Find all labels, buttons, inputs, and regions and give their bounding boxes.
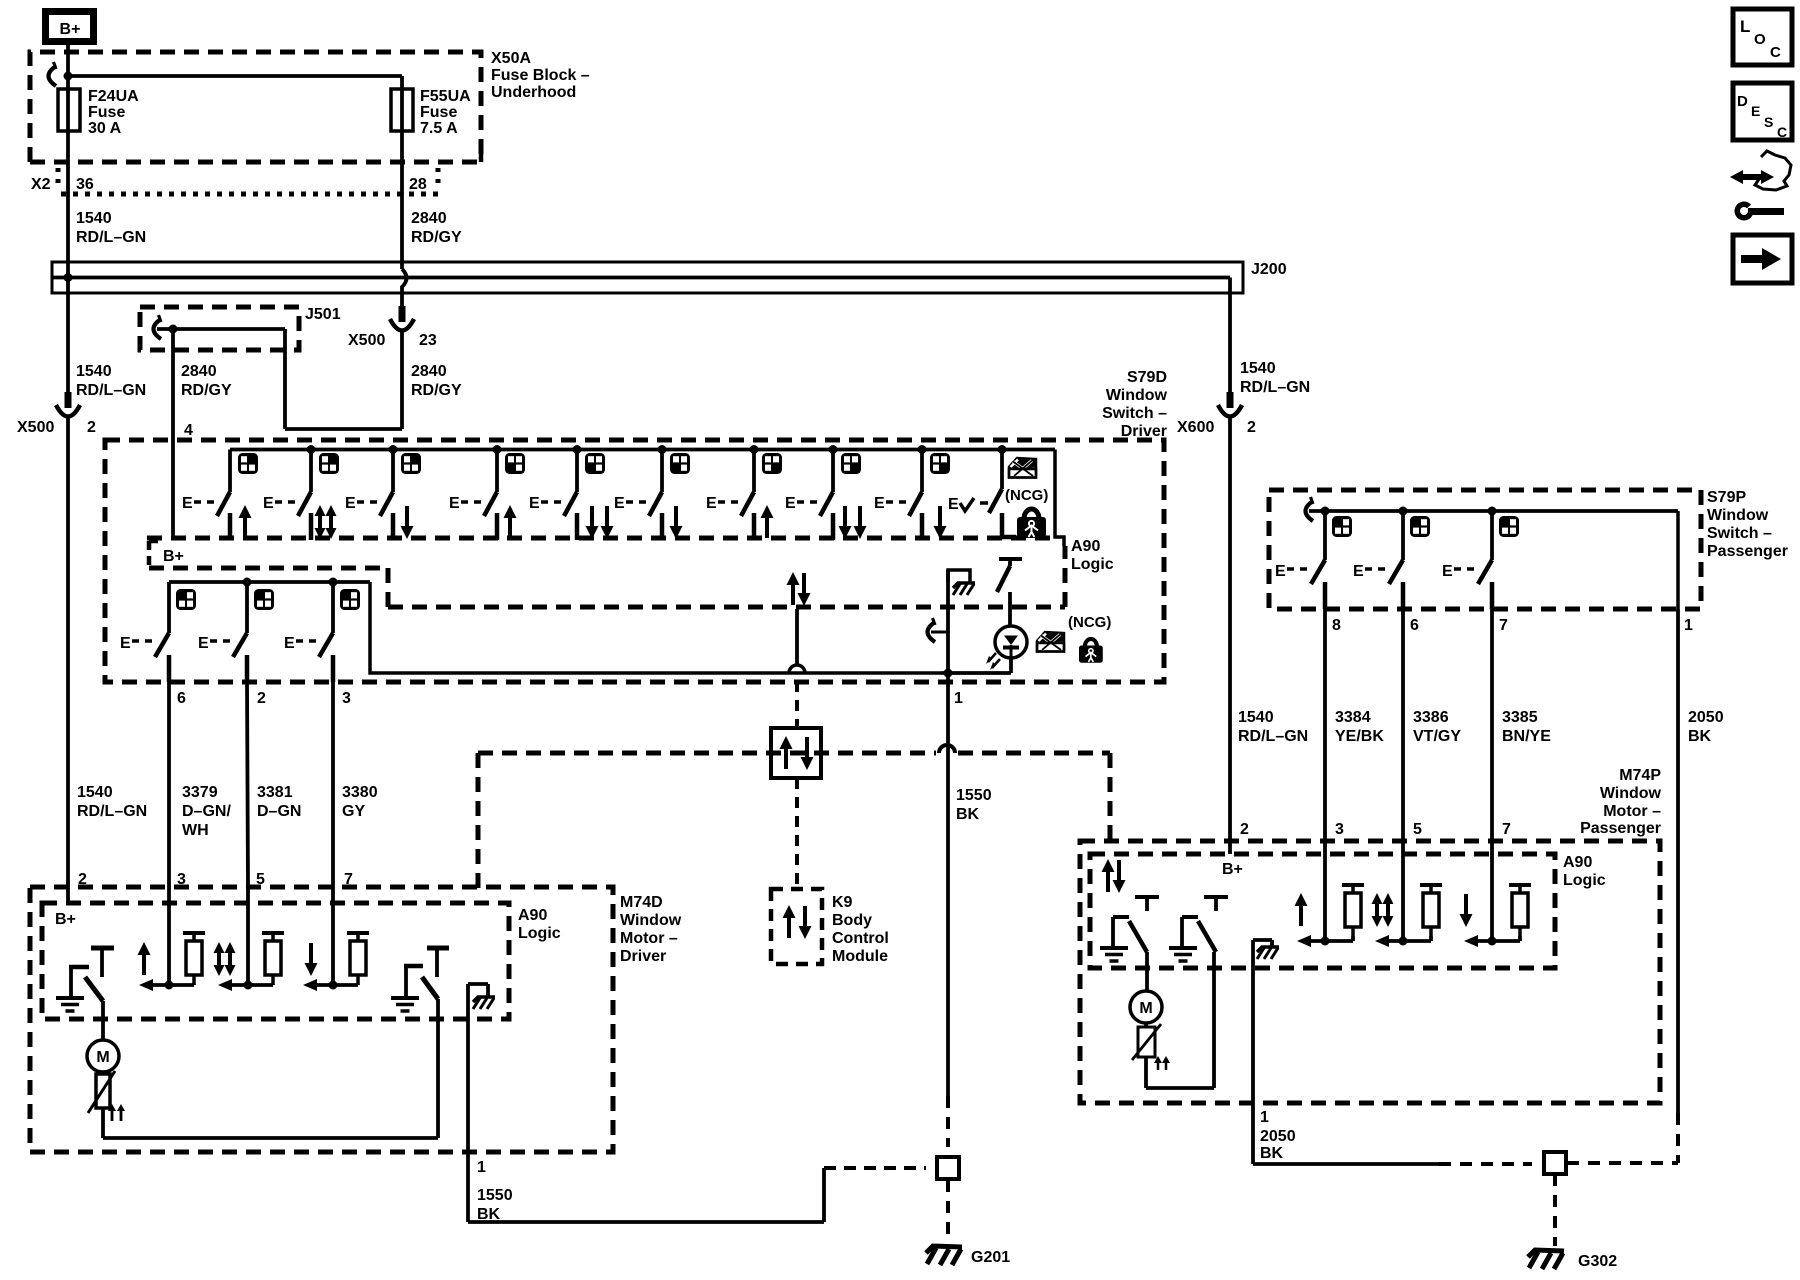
svg-text:E: E: [263, 495, 274, 512]
M74D thermal protector: [88, 1071, 115, 1138]
wire feed to fuse F55UA: [68, 74, 402, 78]
svg-text:Module: Module: [832, 948, 888, 965]
M74D A90 logic dashed box: [42, 903, 561, 1019]
svg-text:Passenger: Passenger: [1580, 820, 1661, 837]
fuse block X50A dashed box: [30, 50, 590, 162]
wire 2840 crossing J200 (no connection jog): [402, 269, 407, 306]
wire J501 to connector X500 pin 23: [157, 329, 402, 429]
svg-text:2050: 2050: [1688, 709, 1724, 726]
svg-text:3: 3: [1335, 821, 1344, 838]
S79D window switch contact 4: [449, 445, 525, 540]
wire 3379 D-GN/WH: [169, 682, 231, 888]
splice pack J200: [52, 261, 1287, 392]
svg-text:Logic: Logic: [518, 925, 561, 942]
serial data arrow box: [771, 728, 821, 778]
S79D window switch contact 1: [182, 450, 258, 541]
svg-text:2840: 2840: [181, 363, 217, 380]
svg-text:BK: BK: [1260, 1145, 1284, 1162]
M74D driver leg pin 3: [138, 887, 206, 991]
svg-text:C: C: [1777, 124, 1787, 140]
S79D A90 Logic label: [1071, 538, 1114, 573]
svg-text:Passenger: Passenger: [1707, 543, 1788, 560]
svg-text:X50A: X50A: [491, 50, 531, 67]
S79D wire from hop to LED branch: [941, 671, 1011, 675]
wire 1550 BK from S79D pin 1: [948, 570, 963, 1096]
S79D serial data stub: [795, 609, 799, 664]
svg-text:23: 23: [419, 332, 437, 349]
svg-text:2: 2: [257, 690, 266, 707]
svg-text:M74P: M74P: [1619, 767, 1661, 784]
svg-text:Logic: Logic: [1071, 556, 1114, 573]
svg-text:B+: B+: [1222, 861, 1243, 878]
svg-text:Motor –: Motor –: [620, 930, 678, 947]
svg-text:F55UA: F55UA: [420, 88, 471, 105]
M74P changeover switch left: [1100, 897, 1159, 961]
S79D window switch contact 8: [785, 445, 867, 540]
svg-text:8: 8: [1332, 617, 1341, 634]
svg-text:36: 36: [76, 176, 94, 193]
M74P thermal protector: [1132, 1023, 1161, 1088]
svg-text:2: 2: [87, 419, 96, 436]
svg-text:E: E: [785, 495, 796, 512]
svg-text:Logic: Logic: [1563, 872, 1606, 889]
S79D bus right corner into A90 logic: [1055, 450, 1064, 547]
svg-text:Motor –: Motor –: [1603, 803, 1661, 820]
S79D output switch contact 1: [120, 582, 196, 682]
icon DESC box: [1733, 83, 1792, 140]
svg-text:B+: B+: [163, 548, 184, 565]
svg-text:1550: 1550: [477, 1187, 513, 1204]
S79D window switch contact 6: [614, 445, 690, 540]
wire 3381 D-GN: [247, 682, 301, 888]
wire 1550 BK labels: [956, 787, 992, 823]
motor module M74D Window Motor Driver dashed box: [30, 887, 682, 1152]
svg-text:Window: Window: [1707, 507, 1769, 524]
svg-text:E: E: [948, 496, 959, 513]
svg-text:RD/GY: RD/GY: [181, 382, 232, 399]
dashed ground lead to stud: [946, 1096, 950, 1147]
power symbol B+: [46, 12, 94, 42]
svg-text:1540: 1540: [1240, 360, 1276, 377]
svg-text:E: E: [529, 495, 540, 512]
M74D changeover switch left: [56, 948, 114, 1011]
svg-text:D: D: [1737, 93, 1748, 110]
svg-text:RD/GY: RD/GY: [411, 229, 462, 246]
ground G201: [926, 1246, 1010, 1266]
svg-text:S79D: S79D: [1127, 369, 1167, 386]
(NCG) window lock icons near LED: [1037, 614, 1111, 663]
svg-text:(NCG): (NCG): [1068, 614, 1111, 631]
S79D output row corner wire to pin 1 node: [370, 582, 941, 673]
wire 3386 VT/GY: [1403, 609, 1461, 841]
wire J501 to S79D pin 4: [173, 329, 193, 538]
wire 2050 BK from S79P pin 1: [1678, 609, 1724, 1113]
svg-text:GY: GY: [342, 803, 365, 820]
serial data dashed bridge M74D to M74P: [478, 745, 1110, 891]
S79D window switch contact 2: [263, 445, 339, 540]
dashed lead stud to G201: [946, 1180, 950, 1240]
M74D internal B+ label: [55, 887, 76, 928]
svg-text:YE/BK: YE/BK: [1335, 728, 1384, 745]
M74P return wire: [1146, 952, 1214, 1088]
S79P window switch contact 1: [1275, 507, 1352, 610]
S79D internal node B+ label: [149, 541, 184, 568]
svg-text:E: E: [120, 635, 131, 652]
svg-text:O: O: [1754, 31, 1766, 48]
svg-text:3381: 3381: [257, 784, 293, 801]
wire label 2840 RD/GY at J501: [181, 363, 232, 399]
S79D window switch contact 7: [706, 445, 782, 540]
svg-text:Window: Window: [1600, 785, 1662, 802]
wire label 1540 RD/L-GN lower: [77, 784, 147, 820]
svg-text:Switch –: Switch –: [1707, 525, 1772, 542]
ground G302: [1528, 1250, 1617, 1270]
svg-text:E: E: [182, 495, 193, 512]
svg-text:E: E: [1275, 563, 1286, 580]
svg-text:Driver: Driver: [1121, 423, 1167, 440]
svg-text:Underhood: Underhood: [491, 84, 576, 101]
svg-text:RD/L–GN: RD/L–GN: [76, 382, 146, 399]
S79D serial data arrows: [787, 572, 811, 606]
svg-text:Body: Body: [832, 912, 872, 929]
svg-text:E: E: [614, 495, 625, 512]
svg-text:7: 7: [1499, 617, 1508, 634]
M74P changeover switch right: [1169, 897, 1228, 961]
S79D output switch contact 3: [284, 578, 360, 683]
wire 1550 BK from M74D pin 1: [468, 984, 513, 1223]
svg-text:(NCG): (NCG): [1005, 487, 1048, 504]
svg-text:C: C: [1770, 44, 1781, 61]
svg-text:28: 28: [409, 176, 427, 193]
connector hook on 1550 wire: [928, 618, 949, 642]
switch assembly S79P Window Switch Passenger dashed box: [1269, 489, 1788, 609]
icon wrench: [1735, 201, 1785, 221]
S79D window switch contact 5: [529, 445, 614, 540]
svg-text:RD/L–GN: RD/L–GN: [77, 803, 147, 820]
svg-text:3380: 3380: [342, 784, 378, 801]
svg-text:6: 6: [1410, 617, 1419, 634]
M74D thermal arrows: [108, 1104, 125, 1121]
fuse F55UA 7.5A: [391, 76, 471, 269]
svg-text:M74D: M74D: [620, 894, 663, 911]
svg-text:1540: 1540: [76, 363, 112, 380]
node splice at B+ feed: [64, 72, 73, 81]
svg-text:1540: 1540: [1238, 709, 1274, 726]
ground stud above G201: [937, 1157, 959, 1179]
serial data line to K9 box: [795, 778, 799, 889]
svg-text:2050: 2050: [1260, 1128, 1296, 1145]
svg-text:BK: BK: [1688, 728, 1712, 745]
wire 1540 RD/L-GN to M74P pin 2: [1228, 417, 1232, 841]
connector X500 pin 23: [348, 306, 437, 349]
svg-text:Driver: Driver: [620, 948, 666, 965]
wire 3384 YE/BK: [1325, 609, 1384, 841]
S79P pin labels: [1332, 617, 1693, 634]
dashed lead stud to G302: [1553, 1174, 1557, 1246]
svg-text:X500: X500: [348, 332, 385, 349]
svg-text:RD/L–GN: RD/L–GN: [1240, 379, 1310, 396]
svg-text:7.5 A: 7.5 A: [420, 120, 458, 137]
svg-text:3386: 3386: [1413, 709, 1449, 726]
connector X600 pin 2: [1177, 392, 1256, 436]
svg-text:E: E: [198, 635, 209, 652]
svg-text:1550: 1550: [956, 787, 992, 804]
svg-text:E: E: [284, 635, 295, 652]
svg-text:A90: A90: [518, 907, 547, 924]
fuse F24UA 30A: [58, 88, 139, 137]
wire label 1540 RD/L-GN above X500-2: [76, 363, 146, 399]
svg-text:Window: Window: [1106, 387, 1168, 404]
M74D driver leg pin 7: [303, 887, 369, 991]
svg-text:E: E: [345, 495, 356, 512]
M74D pin 2 label: [78, 871, 87, 888]
svg-text:3: 3: [342, 690, 351, 707]
svg-text:E: E: [1353, 563, 1364, 580]
svg-text:X600: X600: [1177, 419, 1214, 436]
svg-text:G302: G302: [1578, 1253, 1617, 1270]
svg-text:1540: 1540: [77, 784, 113, 801]
M74D motor M: [87, 1001, 119, 1072]
svg-text:1: 1: [1260, 1109, 1269, 1126]
M74D driver leg pin 5: [214, 887, 285, 991]
svg-text:L: L: [1740, 17, 1750, 36]
S79D A90 logic dashed boundary: [149, 546, 1065, 607]
svg-text:1: 1: [954, 690, 963, 707]
svg-text:A90: A90: [1071, 538, 1100, 555]
svg-text:30 A: 30 A: [88, 120, 122, 137]
S79D window switch contact 9: [874, 445, 950, 540]
wire 1540 RD/L-GN to M74D pin 2: [66, 417, 70, 887]
wire label 1540 RD/L-GN at M74P: [1238, 709, 1308, 745]
splice J501 dashed box: [140, 306, 341, 350]
node S79D pin1 junction: [944, 669, 953, 678]
wire label 2840 RD/GY at X500-23: [411, 363, 462, 399]
svg-text:S: S: [1764, 114, 1773, 130]
S79P bus corner to pin 1: [1676, 511, 1680, 609]
svg-text:F24UA: F24UA: [88, 88, 139, 105]
icon LOC box: [1733, 9, 1792, 65]
M74P thermal arrows: [1154, 1056, 1170, 1070]
svg-text:RD/L–GN: RD/L–GN: [76, 229, 146, 246]
wire label 1540 RD/L-GN (fuse output): [76, 210, 146, 246]
svg-text:4: 4: [184, 422, 193, 439]
S79D top row bottom dashed edge: [147, 536, 1052, 541]
motor module M74P Window Motor Passenger dashed box: [1080, 767, 1662, 1103]
svg-text:5: 5: [1413, 821, 1422, 838]
svg-text:RD/L–GN: RD/L–GN: [1238, 728, 1308, 745]
svg-text:3379: 3379: [182, 784, 218, 801]
icon double arrow with outline: [1730, 151, 1791, 190]
S79P window switch contact 3: [1442, 507, 1519, 610]
svg-text:A90: A90: [1563, 854, 1592, 871]
serial data line S79D to K9: [795, 681, 799, 728]
svg-text:1: 1: [1684, 617, 1693, 634]
connector hook inside J501: [154, 315, 162, 339]
connector hook S79P feed: [1306, 497, 1314, 521]
S79P internal bus: [1309, 509, 1678, 513]
node 1540 wire on J200: [64, 273, 73, 282]
svg-text:B+: B+: [55, 911, 76, 928]
M74D return wire: [103, 999, 438, 1138]
M74P driver leg pin 7: [1460, 841, 1532, 947]
M74P serial data arrows: [1102, 859, 1126, 893]
svg-text:RD/GY: RD/GY: [411, 382, 462, 399]
svg-text:Fuse Block –: Fuse Block –: [491, 67, 590, 84]
wire hop over serial data line: [789, 665, 805, 673]
wire 3385 BN/YE: [1492, 609, 1551, 841]
node J501 splice: [169, 325, 178, 334]
M74P driver leg pin 3: [1295, 841, 1365, 947]
svg-text:E: E: [1751, 103, 1760, 119]
svg-text:2: 2: [1240, 821, 1249, 838]
ground stud above G302: [1544, 1152, 1566, 1174]
S79D internal ground rake: [948, 570, 975, 595]
M74D changeover switch right: [391, 948, 449, 1011]
switch assembly S79D Window Switch Driver dashed box: [105, 369, 1168, 682]
connector X2 strip with pins 36 and 28: [30, 154, 481, 194]
dashed ground leads to stud G302: [1439, 1113, 1678, 1164]
M74P motor M: [1130, 952, 1162, 1023]
S79D LED output to node: [1009, 658, 1013, 673]
M74P internal B+ label: [1222, 841, 1243, 878]
wire B+ to fuse F24UA and down to X2 pin 36: [66, 45, 70, 392]
svg-text:D–GN/: D–GN/: [182, 803, 231, 820]
connector hook at fuse block feed: [49, 62, 57, 86]
svg-text:X500: X500: [17, 419, 54, 436]
svg-text:Fuse: Fuse: [420, 104, 457, 121]
svg-text:G201: G201: [971, 1249, 1010, 1266]
svg-text:BN/YE: BN/YE: [1502, 728, 1551, 745]
wire label 2840 RD/GY (fuse output): [411, 210, 462, 246]
M74P pin 2 label: [1240, 821, 1249, 838]
svg-text:3384: 3384: [1335, 709, 1371, 726]
svg-text:3385: 3385: [1502, 709, 1538, 726]
svg-text:Switch –: Switch –: [1102, 405, 1167, 422]
svg-text:K9: K9: [832, 894, 853, 911]
icon arrow box: [1733, 235, 1792, 283]
svg-text:2840: 2840: [411, 363, 447, 380]
svg-text:B+: B+: [60, 21, 81, 38]
svg-text:E: E: [706, 495, 717, 512]
svg-text:E: E: [449, 495, 460, 512]
body control module K9 dashed box: [771, 889, 889, 965]
svg-text:WH: WH: [182, 822, 209, 839]
connector X500 pin 2: [17, 392, 96, 436]
wire label 1540 RD/L-GN above X600: [1240, 360, 1310, 396]
S79D internal B+ bus (top row): [230, 448, 1055, 452]
svg-text:E: E: [874, 495, 885, 512]
svg-text:X2: X2: [31, 176, 51, 193]
svg-text:E: E: [1442, 563, 1453, 580]
svg-text:D–GN: D–GN: [257, 803, 301, 820]
svg-text:J200: J200: [1251, 261, 1287, 278]
M74P driver leg pin 5: [1372, 841, 1443, 947]
svg-text:1540: 1540: [76, 210, 112, 227]
svg-text:2840: 2840: [411, 210, 447, 227]
svg-text:J501: J501: [305, 306, 341, 323]
svg-text:Window: Window: [620, 912, 682, 929]
svg-text:BK: BK: [956, 806, 980, 823]
M74P A90 logic dashed box: [1090, 854, 1606, 968]
M74D internal ground rake (pin 1): [468, 984, 495, 1009]
svg-text:1: 1: [477, 1159, 486, 1176]
S79D output switch contact 2: [198, 578, 274, 683]
wire 2050 BK from M74P pin 1: [1253, 940, 1439, 1164]
svg-text:Fuse: Fuse: [88, 104, 125, 121]
svg-text:2: 2: [1247, 419, 1256, 436]
M74P internal ground rake (pin 1): [1253, 940, 1279, 959]
svg-text:6: 6: [177, 690, 186, 707]
svg-text:VT/GY: VT/GY: [1413, 728, 1461, 745]
svg-text:S79P: S79P: [1707, 489, 1746, 506]
S79P window switch contact 2: [1353, 507, 1430, 610]
S79D window switch contact 3: [345, 445, 421, 540]
S79D output switch row bus: [169, 580, 370, 584]
S79D illumination LED: [986, 626, 1027, 670]
svg-text:7: 7: [1502, 821, 1511, 838]
S79D lockout switch Ev with padlock (NCG): [948, 445, 1048, 538]
wire 1550 BK run to ground stud: [468, 1168, 926, 1222]
svg-text:Control: Control: [832, 930, 889, 947]
S79D backlight switch: [997, 559, 1022, 627]
wire 3380 GY: [333, 682, 378, 888]
